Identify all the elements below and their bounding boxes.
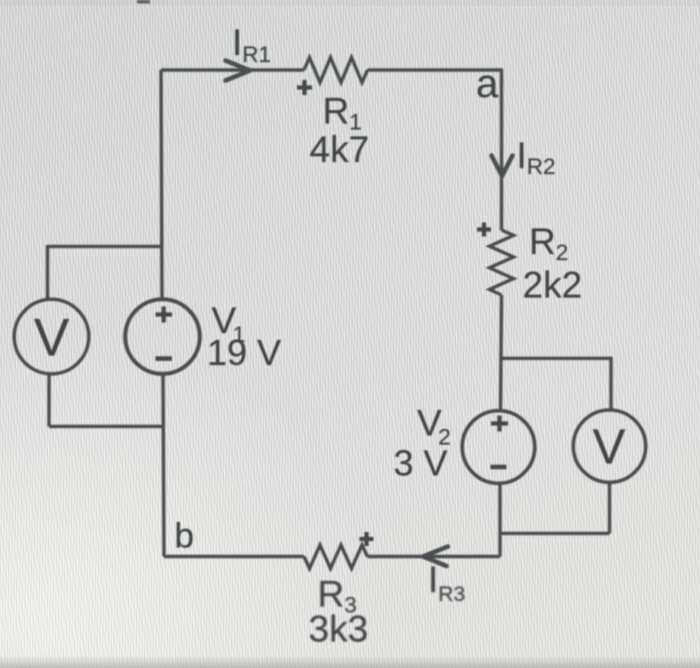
voltage source V1	[125, 299, 200, 374]
resistor R3	[304, 545, 368, 569]
resistor R2	[490, 230, 514, 295]
wire right upper	[500, 69, 503, 231]
svg-text:19 V: 19 V	[207, 332, 281, 373]
svg-text:b: b	[175, 517, 194, 556]
wire left upper	[161, 70, 162, 299]
plus sign at R2	[477, 223, 491, 237]
plus sign in V1	[156, 307, 173, 323]
wire voltmeter branch bottom	[49, 425, 163, 428]
arrow IR2	[492, 156, 513, 177]
wire voltmeter2 branch right lower	[608, 482, 611, 533]
wire right middle	[501, 295, 502, 411]
svg-text:IR1: IR1	[232, 22, 271, 67]
resistor R1	[304, 58, 368, 83]
svg-text:R2: R2	[529, 221, 568, 265]
wire left lower	[163, 374, 164, 557]
arrow IR3	[423, 547, 448, 567]
wire right lower	[498, 484, 501, 557]
svg-text:3k3: 3k3	[309, 609, 369, 650]
minus sign in V1	[156, 356, 172, 361]
svg-text:IR2: IR2	[517, 135, 556, 179]
wire bottom left segment	[164, 555, 304, 558]
plus sign at R1	[297, 80, 312, 95]
svg-text:2k2: 2k2	[523, 265, 583, 306]
svg-text:3 V: 3 V	[394, 443, 448, 484]
wire voltmeter2 branch bottom	[500, 532, 610, 535]
wire top right segment	[368, 68, 503, 71]
wire voltmeter branch top	[48, 245, 163, 248]
wire top left segment	[161, 68, 304, 71]
voltmeter VM1	[14, 299, 89, 374]
wire voltmeter branch left upper	[46, 245, 49, 300]
svg-text:4k7: 4k7	[310, 129, 370, 170]
wire voltmeter2 branch top	[501, 357, 611, 360]
svg-text:V: V	[34, 309, 70, 368]
stray mark top edge	[137, 0, 150, 4]
arrow IR1	[226, 61, 251, 81]
svg-text:a: a	[476, 62, 499, 106]
minus sign in V2	[491, 465, 507, 470]
voltage source V2	[462, 411, 535, 484]
wire bottom right segment	[368, 555, 501, 558]
plus sign at R3	[360, 532, 374, 546]
plus sign in V2	[491, 416, 508, 432]
svg-text:V: V	[593, 421, 626, 475]
wire voltmeter branch left lower	[47, 374, 50, 427]
svg-text:R1: R1	[323, 91, 362, 135]
voltmeter VM2	[573, 410, 645, 482]
wire voltmeter2 branch right upper	[609, 357, 612, 411]
